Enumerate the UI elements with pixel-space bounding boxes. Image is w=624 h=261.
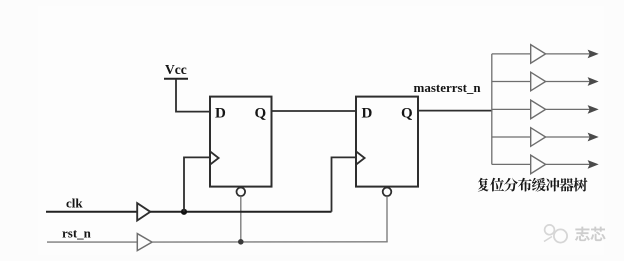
svg-text:D: D xyxy=(362,105,373,121)
buffer B4 xyxy=(531,128,546,147)
buffer B3 xyxy=(531,100,546,119)
wire rst net xyxy=(152,241,388,243)
flip-flop U1 body xyxy=(210,97,272,187)
junction clk node xyxy=(181,209,187,215)
svg-text:Q: Q xyxy=(401,105,413,121)
arrowhead B2 xyxy=(589,78,598,85)
buffer B1 xyxy=(531,45,546,64)
buffer B5 xyxy=(531,155,546,174)
buffer-tree bus wire xyxy=(491,54,493,164)
wire branch 2 xyxy=(492,81,531,83)
Vcc supply bar xyxy=(164,78,188,80)
wire B5 output xyxy=(546,163,590,165)
wire branch 5 xyxy=(492,163,531,165)
clock buffer B6 xyxy=(137,203,150,220)
U1 reset bubble xyxy=(237,188,246,197)
wire U2 Q to buffer-tree bus xyxy=(418,110,492,112)
arrowhead B4 xyxy=(589,134,598,141)
svg-text:clk: clk xyxy=(66,196,83,211)
wire U1 bubble to rst net xyxy=(240,196,242,242)
label reset distribution buffer tree (复位分布缓冲器树) xyxy=(478,178,588,192)
wire Vcc to D of U1 xyxy=(176,79,210,112)
wire branch 1 xyxy=(492,53,531,55)
wire B1 output xyxy=(546,53,590,55)
svg-text:D: D xyxy=(215,105,226,121)
svg-text:rst_n: rst_n xyxy=(62,225,92,240)
svg-text:Q: Q xyxy=(255,105,267,121)
buffer B2 xyxy=(531,72,546,91)
U2 reset bubble xyxy=(383,188,392,197)
wire U2 bubble to rst net xyxy=(386,196,388,242)
junction rst node xyxy=(238,239,244,245)
arrowhead B5 xyxy=(589,161,598,168)
wire rst_n input xyxy=(47,241,137,243)
wire branch 3 xyxy=(492,108,531,110)
wire clk to U2 clock xyxy=(332,157,357,211)
arrowhead B1 xyxy=(589,51,598,58)
wire branch 4 xyxy=(492,136,531,138)
wire clk to U1 clock xyxy=(184,157,210,211)
svg-text:masterrst_n: masterrst_n xyxy=(414,80,482,95)
wire B2 output xyxy=(546,81,590,83)
U1 clock caret xyxy=(210,151,219,164)
wire B3 output xyxy=(546,108,590,110)
wire clk net xyxy=(150,211,331,213)
arrowhead B3 xyxy=(589,106,598,113)
logo text 志芯 xyxy=(575,227,606,242)
logo mark xyxy=(544,225,567,243)
wire U1 Q to U2 D xyxy=(272,110,357,112)
U2 clock caret xyxy=(356,151,365,164)
wire B4 output xyxy=(546,136,590,138)
flip-flop U2 body xyxy=(356,97,418,187)
wire clk input xyxy=(46,211,137,213)
svg-text:Vcc: Vcc xyxy=(165,62,187,77)
reset buffer B7 xyxy=(137,234,152,251)
